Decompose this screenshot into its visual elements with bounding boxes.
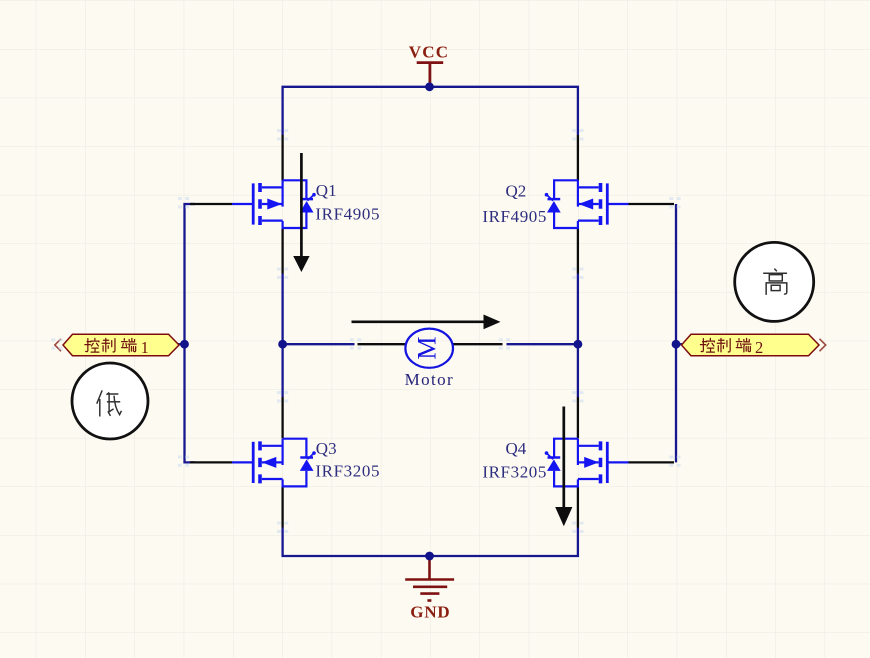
pin motor right [453,343,503,345]
VCC stem [428,64,431,87]
pin marker Q3 source [277,522,288,533]
wire: left gate bus [185,204,196,462]
svg-text:GND: GND [410,603,450,622]
wire: left vertical (Q1 source to Q3 drain) [281,274,283,398]
wire: right vertical (Q2 source to Q4 drain) [577,274,579,398]
pin Q1 drain/source [281,135,283,274]
motor M1 [405,329,453,368]
port1 text 控 [85,338,99,352]
port2 chevron [820,339,826,351]
pin marker Q1 source [277,268,288,279]
GND stem [428,556,431,579]
wire: port1 stub [178,343,185,345]
pin marker port1 tip [51,338,62,349]
svg-text:IRF3205: IRF3205 [315,461,380,480]
pin marker Q4 source [572,522,583,533]
pin marker motor right [499,338,510,349]
svg-text:IRF4905: IRF4905 [315,205,380,224]
ground GND [405,556,454,622]
wire: bottom rail GND [283,528,578,557]
svg-text:IRF3205: IRF3205 [482,463,547,482]
pin Q2 gate [629,203,675,205]
port2 body [682,334,820,356]
port1 chevron [55,339,61,351]
pin Q3 drain/source [281,397,283,528]
transistor Q1 (IRF4905 P-ch) [232,180,316,228]
port 控制端1 [55,334,179,357]
port2 text 端 [736,338,751,352]
pin marker Q2 gate corner [669,197,680,208]
port1 text 端 [122,338,137,352]
pin marker Q2 source [572,268,583,279]
junction dot top (VCC) [425,82,434,91]
pin Q2 drain/source [577,135,579,274]
transistor Q4 (IRF3205 N-ch, mirrored) [545,439,629,487]
pin marker Q1 drain [277,129,288,140]
port1 text 制 [102,338,115,352]
svg-text:VCC: VCC [409,42,449,61]
annotation arrow down at Q4 [555,407,572,527]
wire: motor to middle right [507,343,578,345]
annotation arrow down at Q1 [293,153,309,272]
svg-text:M: M [413,336,442,359]
junction dot right mid [574,340,583,349]
svg-text:Motor: Motor [405,370,455,389]
port 控制端2 [682,334,826,357]
port2 text 制 [717,338,730,352]
svg-text:Q3: Q3 [316,439,337,458]
GND bar 4 [427,599,431,602]
port2 text 控 [700,338,714,352]
pin Q4 drain/source [577,397,579,528]
glyph 低 [97,390,122,416]
annotation circle 高 (high) [735,242,814,321]
pin Q3 gate [190,461,232,463]
transistor Q2 (IRF4905 P-ch, mirrored) [545,180,629,228]
svg-text:1: 1 [141,338,149,357]
circle outline (low) [72,363,148,439]
annotation arrow right at motor [352,315,501,330]
GND bar 3 [420,592,439,595]
svg-text:Q2: Q2 [506,181,527,200]
svg-text:Q1: Q1 [316,181,337,200]
wire: top rail VCC [283,87,578,135]
pin marker Q3 drain [277,391,288,402]
pin Q4 gate [629,461,675,463]
GND bar 1 [405,578,454,581]
circle outline (high) [735,242,814,321]
pin Q1 gate [190,203,232,205]
junction dot port1 [180,340,189,349]
pin motor left [358,343,407,345]
motor body circle [405,329,453,368]
transistor Q3 (IRF3205 N-ch) [232,439,316,487]
port1 body [63,334,179,356]
junction dot port2 [672,340,681,349]
svg-text:2: 2 [755,338,763,357]
wire: port2 stub [676,343,682,345]
junction dot GND [425,552,434,561]
pin marker Q4 drain [572,391,583,402]
svg-text:IRF4905: IRF4905 [482,207,547,226]
svg-text:Q4: Q4 [506,439,527,458]
pin marker Q1 gate corner [178,197,189,208]
pin marker Q4 gate corner [669,456,680,467]
wire: right gate bus [675,204,677,462]
GND bar 2 [413,585,447,588]
VCC bar [417,61,444,64]
pin marker Q3 gate corner [178,456,189,467]
pin marker motor left [350,338,361,349]
glyph 高 [763,269,787,295]
wire: middle left to motor [283,343,355,345]
junction dot left mid [278,340,287,349]
power port VCC [409,42,449,86]
annotation circle 低 (low) [72,363,148,439]
pin marker Q2 drain [572,129,583,140]
